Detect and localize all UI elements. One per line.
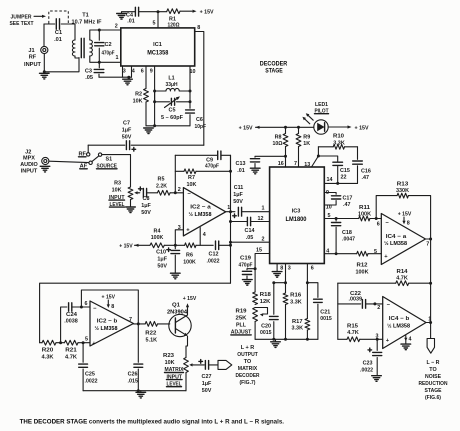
svg-text:INPUT: INPUT [21, 169, 38, 175]
node pin5/C4/R1 [157, 10, 160, 13]
resistor R9 1K [296, 134, 301, 147]
svg-text:5.1K: 5.1K [146, 337, 158, 343]
svg-text:C13: C13 [236, 161, 246, 167]
capacitor C26 .015 [137, 324, 139, 362]
svg-text:120Ω: 120Ω [168, 22, 181, 28]
+15V arrow (right of LED) [328, 126, 347, 128]
wire pin 10 down [189, 66, 191, 91]
svg-text:C6: C6 [196, 117, 203, 123]
resistor R2 10K [145, 66, 147, 89]
svg-text:3.3K: 3.3K [290, 300, 302, 306]
+15V supply arrow (top) [180, 10, 192, 12]
svg-text:C7: C7 [123, 120, 130, 126]
resistor R8 10ohm [285, 147, 287, 168]
svg-text:+ 15V: + 15V [183, 296, 197, 302]
wire ground node to T1 primary [44, 58, 79, 72]
capacitor C20 .0015 [274, 283, 286, 315]
svg-text:6: 6 [311, 266, 314, 272]
svg-text:14: 14 [327, 177, 333, 183]
LED emission arrows [308, 115, 314, 120]
wire pin6 of IC3 down / R17 [306, 264, 308, 319]
bottom rail of PLL network with ground [255, 338, 318, 340]
svg-text:REDUCTION: REDUCTION [419, 381, 448, 387]
wire output down to R14 rail [430, 239, 432, 283]
svg-text:+: + [386, 338, 390, 344]
resistor R22 5.1K [145, 322, 157, 327]
op-amp U4b 1/2 LM358 [383, 297, 426, 349]
node R20/R21/C24 [59, 341, 62, 344]
ground at J2 [40, 165, 50, 167]
svg-text:.0047: .0047 [342, 237, 355, 243]
capacitor C2 470pF [98, 29, 101, 32]
jumper J (dashed link bridging C1) [49, 11, 69, 24]
svg-text:C2: C2 [105, 42, 112, 48]
svg-text:MPX: MPX [23, 155, 35, 161]
svg-text:.05: .05 [85, 75, 93, 81]
svg-text:C26: C26 [128, 371, 138, 377]
svg-text:0015: 0015 [260, 330, 272, 336]
svg-text:C5: C5 [169, 107, 176, 113]
svg-text:TO: TO [429, 367, 436, 373]
svg-text:1K: 1K [303, 141, 310, 147]
svg-text:R11: R11 [359, 205, 370, 211]
svg-text:R22: R22 [145, 331, 156, 337]
svg-text:33μH: 33μH [166, 82, 178, 88]
svg-text:+: + [92, 341, 96, 347]
svg-text:DECODER: DECODER [236, 373, 260, 379]
capacitor C4 .01 with ground [117, 13, 127, 15]
resistor R10 3.3K [312, 147, 319, 167]
svg-text:STAGE: STAGE [425, 388, 442, 394]
svg-text:4: 4 [409, 336, 412, 342]
bottom rail with ground [83, 390, 186, 392]
node C13 on pin16 wire [284, 155, 287, 158]
resistor R7 10K feedback [175, 170, 184, 172]
capacitor C25 .0022 [82, 343, 84, 363]
svg-text:OUTPUT: OUTPUT [237, 352, 258, 358]
svg-text:10pF: 10pF [195, 124, 207, 130]
wire S1 common to R3 [102, 155, 131, 187]
capacitor C16 .47 [357, 147, 359, 160]
capacitor C18 .0047 [335, 217, 338, 220]
svg-text:100K: 100K [358, 211, 371, 217]
svg-text:+: + [186, 228, 190, 234]
svg-text:8: 8 [111, 304, 114, 310]
resistor R6 100K [185, 243, 196, 248]
svg-text:2: 2 [377, 305, 380, 311]
svg-text:.05: .05 [246, 235, 254, 241]
svg-text:STAGE: STAGE [265, 67, 283, 74]
svg-text:15: 15 [256, 248, 262, 254]
svg-text:10.7 MHz IF: 10.7 MHz IF [72, 19, 103, 25]
svg-text:9: 9 [150, 69, 153, 75]
svg-text:2: 2 [115, 24, 118, 30]
svg-text:C17: C17 [343, 195, 353, 201]
svg-text:C8: C8 [143, 196, 150, 202]
svg-text:4: 4 [203, 232, 206, 238]
svg-text:.0022: .0022 [85, 378, 98, 384]
capacitor C10 1uF 50V to ground [174, 245, 176, 248]
resistor R13 330K feedback [375, 217, 378, 220]
op-amp U4a 1/2 LM358 [381, 214, 425, 265]
svg-text:50V: 50V [202, 388, 212, 394]
svg-text:10Ω: 10Ω [273, 141, 284, 147]
svg-text:6: 6 [85, 301, 88, 307]
svg-text:L + R: L + R [241, 345, 255, 351]
svg-text:8: 8 [280, 266, 283, 272]
svg-text:½ LM358: ½ LM358 [387, 322, 411, 329]
svg-text:C3: C3 [85, 69, 92, 75]
svg-text:.015: .015 [128, 378, 139, 384]
svg-text:12K: 12K [260, 299, 271, 305]
trimmer capacitor C5 5-60pF [154, 91, 156, 102]
svg-text:10K: 10K [133, 99, 143, 105]
svg-text:IC3: IC3 [292, 209, 301, 215]
svg-text:Q1: Q1 [172, 303, 180, 309]
svg-text:C11: C11 [234, 185, 244, 191]
svg-text:10K: 10K [165, 360, 175, 366]
wire pin 4 to bias rail [199, 228, 201, 246]
connector J1 RF INPUT [43, 24, 45, 46]
svg-text:L − R: L − R [427, 360, 440, 366]
svg-text:C24: C24 [66, 312, 77, 318]
svg-text:R18: R18 [260, 292, 271, 298]
svg-text:22: 22 [341, 174, 347, 180]
IC2-b output node [134, 323, 146, 325]
svg-text:R4: R4 [154, 228, 161, 234]
svg-text:IC4 − b: IC4 − b [389, 316, 410, 322]
+15V collector arrow [187, 308, 189, 316]
resistor R15 4.7K [338, 338, 347, 340]
svg-text:C23: C23 [363, 361, 373, 367]
svg-text:+ 15V: + 15V [119, 243, 133, 249]
wire into pin 6 [81, 306, 90, 308]
svg-text:1: 1 [116, 55, 119, 61]
svg-text:.01: .01 [54, 37, 62, 43]
pin 5 node + label [82, 341, 85, 344]
svg-text:C1: C1 [55, 30, 62, 36]
svg-text:J1: J1 [28, 48, 34, 54]
svg-text:R21: R21 [65, 347, 77, 353]
svg-text:3.3K: 3.3K [333, 140, 345, 146]
svg-text:C16: C16 [361, 168, 371, 174]
potentiometer R23 10K MATRIX INPUT LEVEL [184, 358, 189, 373]
svg-text:C20: C20 [261, 323, 271, 329]
bias node [164, 244, 184, 246]
svg-text:2.2K: 2.2K [156, 183, 167, 189]
svg-text:0015: 0015 [320, 316, 332, 322]
svg-text:1μF: 1μF [157, 257, 167, 263]
capacitor C6 10pF [189, 102, 191, 109]
svg-text:10: 10 [326, 204, 332, 210]
svg-text:3: 3 [288, 266, 291, 272]
svg-text:S1: S1 [106, 156, 113, 162]
svg-text:(FIG.7): (FIG.7) [240, 380, 256, 386]
svg-text:C25: C25 [85, 371, 95, 377]
capacitor C21 .0015 [307, 283, 318, 298]
svg-text:R14: R14 [397, 269, 408, 275]
svg-text:½ LM358: ½ LM358 [384, 240, 408, 247]
svg-text:+ 15V: + 15V [398, 211, 412, 217]
svg-text:R13: R13 [397, 181, 409, 187]
svg-text:R17: R17 [292, 319, 303, 325]
svg-text:100K: 100K [356, 269, 369, 275]
svg-text:1μF: 1μF [202, 381, 212, 387]
svg-text:470pF: 470pF [102, 51, 115, 57]
svg-text:+ 15V: + 15V [239, 126, 253, 132]
capacitor C12 .0022 [215, 241, 217, 249]
wire pin 3 to bias node [175, 230, 183, 246]
svg-text:MC1358: MC1358 [147, 50, 168, 57]
svg-text:1μF: 1μF [122, 127, 132, 133]
svg-text:5: 5 [85, 336, 88, 342]
svg-text:6: 6 [141, 69, 144, 75]
capacitor C1 [44, 23, 55, 25]
IC4-a output node [426, 238, 431, 240]
IC U1 MC1358 [121, 28, 195, 66]
IC U3 LM1800 [270, 167, 325, 264]
wire pin 9 down [154, 66, 156, 102]
svg-text:+ 15V: + 15V [200, 10, 214, 16]
svg-text:100K: 100K [183, 259, 196, 265]
svg-text:3: 3 [123, 69, 126, 75]
svg-text:JUMPER: JUMPER [11, 15, 32, 21]
svg-text:−: − [93, 306, 97, 312]
switch arm to AF contact [92, 156, 99, 162]
svg-text:12: 12 [258, 216, 264, 222]
capacitor C23 .0022 (polarized) with ground [368, 349, 372, 351]
svg-text:C15: C15 [340, 168, 350, 174]
wire pin3 of IC3 down / R16 [285, 264, 287, 294]
op-amp U2a 1/2 LM358 [183, 188, 225, 236]
svg-text:IC2 − a: IC2 − a [190, 204, 211, 210]
feedback loop wire IC2-b [81, 290, 138, 324]
svg-text:1μF: 1μF [233, 192, 243, 198]
svg-text:LM1800: LM1800 [286, 216, 307, 223]
svg-text:R10: R10 [333, 134, 344, 140]
svg-text:½ LM358: ½ LM358 [189, 211, 213, 218]
capacitor C19 470pF with ground [254, 267, 257, 270]
svg-text:6: 6 [377, 221, 380, 227]
phono plug L-R output [427, 339, 434, 354]
svg-text:4.7K: 4.7K [65, 355, 77, 361]
capacitor C3 .05 [98, 62, 100, 68]
IC4-b output [426, 322, 431, 324]
svg-text:10K: 10K [112, 187, 122, 193]
svg-text:R8: R8 [275, 134, 282, 140]
svg-text:C19: C19 [240, 256, 251, 262]
wire pin2 node to R7 rail [229, 170, 232, 173]
svg-text:.01: .01 [127, 19, 135, 25]
svg-text:C4: C4 [126, 13, 133, 19]
ground at J1 [43, 70, 46, 73]
output wire pin 1 with node [226, 211, 235, 213]
emitter wire to R23 [186, 336, 188, 358]
tank bottom rail with ground [146, 125, 190, 127]
svg-text:7: 7 [129, 317, 132, 323]
svg-text:NOISE: NOISE [425, 374, 441, 380]
svg-text:C9: C9 [206, 157, 213, 163]
svg-text:25K: 25K [236, 315, 247, 321]
svg-text:AUDIO: AUDIO [20, 162, 38, 168]
svg-text:.0022: .0022 [360, 368, 373, 374]
resistor R20 4.3K [42, 340, 56, 345]
svg-text:.0039: .0039 [349, 297, 363, 303]
svg-text:DECODER: DECODER [260, 60, 288, 67]
svg-text:50V: 50V [233, 199, 243, 205]
svg-text:13: 13 [304, 162, 310, 168]
svg-text:INPUT: INPUT [24, 62, 42, 68]
svg-text:4: 4 [132, 69, 135, 75]
svg-text:9: 9 [326, 190, 329, 196]
svg-text:3.3K: 3.3K [292, 326, 304, 332]
svg-text:470pF: 470pF [239, 263, 254, 269]
svg-text:1: 1 [227, 205, 230, 211]
svg-text:10K: 10K [187, 182, 197, 188]
wire J2 to AF contact [49, 161, 89, 162]
svg-text:4.7K: 4.7K [347, 330, 359, 336]
svg-text:R19: R19 [236, 308, 247, 314]
capacitor C22 .0039 [338, 303, 361, 305]
svg-text:½ LM358: ½ LM358 [95, 325, 119, 332]
capacitor C9 470pF feedback [175, 154, 217, 156]
svg-text:R6: R6 [186, 252, 193, 258]
svg-text:+: + [384, 254, 388, 260]
svg-text:SEE TEXT: SEE TEXT [10, 21, 35, 27]
svg-text:R9: R9 [303, 134, 310, 140]
svg-text:5 – 60pF: 5 – 60pF [161, 115, 184, 121]
svg-text:R20: R20 [42, 347, 54, 353]
svg-text:−: − [387, 303, 391, 309]
capacitor C24 .0038 [61, 307, 67, 343]
wire IC2-a bus to R20 (left rail) [40, 283, 231, 343]
svg-text:5: 5 [153, 21, 156, 27]
resistor R4 100K [150, 243, 164, 248]
svg-text:7: 7 [294, 161, 297, 167]
capacitor C11 1uF 50V (polarized) [233, 215, 237, 217]
wire J1 to ground node [43, 54, 45, 72]
wire pins 3,4 to ground rail [122, 66, 124, 77]
left vertical of IC4-b input network [337, 283, 339, 339]
svg-text:50V: 50V [122, 134, 132, 140]
svg-text:THE DECODER STAGE converts the: THE DECODER STAGE converts the multiplex… [20, 418, 285, 425]
capacitor C8 1uF 50V (polarized) [139, 188, 143, 190]
svg-text:.0038: .0038 [64, 319, 78, 325]
svg-text:4.7K: 4.7K [396, 276, 408, 282]
svg-text:TO: TO [244, 359, 251, 365]
svg-text:(FIG.6): (FIG.6) [425, 395, 441, 401]
ground under R3 [126, 206, 136, 208]
phono plug L+R output [218, 360, 232, 369]
svg-text:1: 1 [262, 206, 265, 212]
wire pin9 line down to bottom rail [154, 102, 156, 126]
svg-text:8: 8 [407, 220, 410, 226]
svg-text:IC2 − b: IC2 − b [97, 318, 118, 324]
svg-text:R2: R2 [135, 92, 142, 98]
potentiometer R19 25K PLL ADJUST [253, 308, 258, 322]
wire pin 8 to audio line (right side) [195, 32, 204, 146]
svg-text:RF: RF [29, 54, 37, 60]
svg-text:2: 2 [178, 187, 181, 193]
feedback left vertical [174, 155, 176, 193]
capacitor C15 22 [318, 156, 337, 161]
switch S1 SOURCE [87, 145, 89, 152]
svg-text:R23: R23 [163, 353, 174, 359]
svg-text:4.3K: 4.3K [42, 355, 54, 361]
svg-text:L1: L1 [168, 76, 174, 82]
svg-text:5: 5 [328, 213, 331, 219]
resistor R17 3.3K [305, 319, 310, 331]
svg-text:C10: C10 [156, 250, 166, 256]
svg-text:.01: .01 [237, 168, 245, 174]
svg-text:.47: .47 [362, 175, 370, 181]
svg-text:C14: C14 [245, 228, 255, 234]
svg-text:LED1: LED1 [315, 102, 328, 108]
svg-text:.0022: .0022 [207, 258, 220, 264]
svg-text:.47: .47 [343, 202, 351, 208]
svg-text:8: 8 [197, 25, 200, 31]
svg-text:PLL: PLL [236, 322, 247, 328]
svg-text:MATRIX: MATRIX [238, 366, 258, 372]
svg-text:C21: C21 [320, 309, 330, 315]
svg-text:470pF: 470pF [205, 164, 220, 170]
op-amp U2b 1/2 LM358 [90, 301, 134, 346]
svg-text:7: 7 [426, 241, 429, 247]
wire to output plug [430, 283, 432, 338]
node pin 6 IC2-b [80, 306, 83, 309]
resistor R16 3.3K [283, 293, 288, 305]
svg-text:T1: T1 [82, 12, 89, 18]
node pin 2 IC2-a [174, 191, 177, 194]
pin 4 with ground [405, 336, 407, 344]
svg-text:C12: C12 [209, 251, 219, 257]
wire C3 to IC1 pins 3-4 ground rail [99, 76, 132, 78]
svg-text:R5: R5 [158, 177, 165, 183]
svg-text:IC4 − a: IC4 − a [386, 234, 407, 240]
svg-text:50V: 50V [141, 210, 151, 216]
resistor R14 4.7K [338, 282, 396, 284]
svg-text:16: 16 [278, 161, 284, 167]
wire node down to pin 5 [157, 12, 159, 28]
svg-text:330K: 330K [396, 188, 409, 194]
svg-text:R16: R16 [290, 293, 301, 299]
capacitor C13 .01 with ground [255, 155, 286, 158]
svg-text:5: 5 [374, 249, 377, 255]
svg-text:IC1: IC1 [153, 42, 162, 48]
svg-text:R15: R15 [347, 323, 358, 329]
svg-text:R3: R3 [114, 180, 121, 186]
svg-text:100K: 100K [151, 235, 164, 241]
svg-text:C18: C18 [342, 230, 352, 236]
resistor R18 12K [253, 292, 258, 305]
potentiometer R3 10K INPUT LEVEL [128, 187, 133, 200]
svg-text:C27: C27 [202, 374, 212, 380]
svg-text:R7: R7 [188, 175, 195, 181]
capacitor C27 1uF 50V (polarized) [194, 364, 205, 366]
svg-text:50V: 50V [157, 264, 167, 270]
resistor R1 120ohm [158, 11, 167, 13]
ground under IC1 pins 3-4 [123, 78, 133, 80]
svg-text:1μF: 1μF [141, 203, 151, 209]
svg-text:+ 15V: + 15V [355, 125, 369, 131]
bus from IC2-a output down to IC2-b rail [230, 155, 232, 283]
svg-text:R12: R12 [357, 262, 368, 268]
resistor R21 4.7K [65, 340, 79, 345]
